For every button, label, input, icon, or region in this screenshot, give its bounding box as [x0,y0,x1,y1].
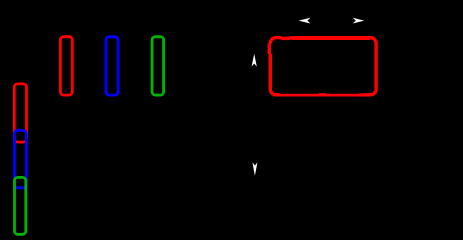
hand-drawn kink on big rect bottom edge (left) [319,93,327,98]
hand-drawn jog on big rect left edge (upper part shifted left) [268,44,272,55]
middle green rounded rect [152,37,164,95]
stacked blue rounded rect (left column, middle) [15,130,27,188]
height dimension down arrowhead [252,162,257,175]
thinner hand-drawn bottom stroke of big rect [280,92,366,95]
stacked green rounded rect (left column, bottom) [15,177,26,234]
hand-drawn jog on big rect top edge [282,35,291,40]
stacked red rounded rect (left column, top) [14,84,26,142]
width dimension left arrowhead [299,18,311,24]
height dimension up arrowhead [252,54,257,67]
large red rounded rect [270,38,376,95]
thicker hand-drawn top stroke of big rect [292,36,370,40]
width dimension right arrowhead [353,18,364,24]
middle blue rounded rect [106,37,118,95]
hand-drawn kink on big rect bottom edge (right) [360,93,367,98]
middle red rounded rect [60,37,72,95]
